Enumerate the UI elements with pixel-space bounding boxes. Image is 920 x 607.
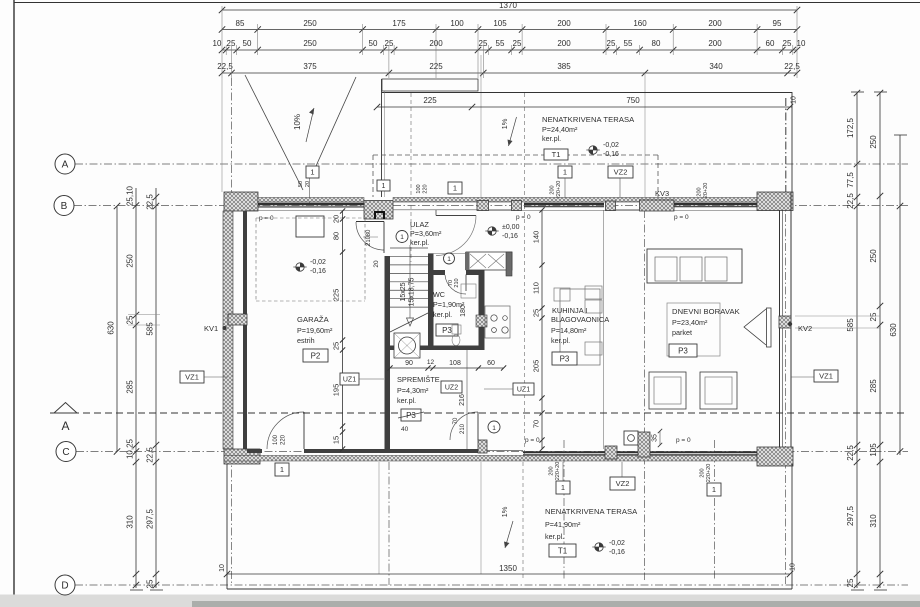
svg-text:110: 110	[532, 282, 541, 294]
svg-text:1: 1	[382, 183, 386, 190]
svg-text:297,5: 297,5	[146, 508, 155, 529]
svg-text:1: 1	[453, 184, 457, 193]
svg-text:1: 1	[492, 425, 496, 432]
svg-text:225: 225	[423, 96, 437, 105]
svg-text:50: 50	[369, 39, 378, 48]
svg-text:UZ2: UZ2	[445, 385, 458, 392]
svg-text:P=41,90m²: P=41,90m²	[545, 520, 581, 529]
svg-text:VZ1: VZ1	[185, 373, 199, 382]
svg-text:285: 285	[126, 380, 135, 394]
svg-text:ULAZ: ULAZ	[410, 220, 429, 229]
svg-text:NENATKRIVENA TERASA: NENATKRIVENA TERASA	[542, 115, 635, 124]
svg-text:12: 12	[427, 359, 435, 366]
svg-text:25,10: 25,10	[126, 185, 135, 206]
svg-text:195: 195	[332, 384, 341, 397]
svg-text:10,25: 10,25	[126, 438, 135, 459]
svg-text:220: 220	[423, 184, 429, 193]
svg-text:parket: parket	[672, 328, 692, 337]
svg-text:200: 200	[708, 19, 722, 28]
svg-text:105: 105	[869, 443, 878, 457]
svg-text:±0,00: ±0,00	[502, 224, 520, 231]
svg-text:340: 340	[709, 62, 723, 71]
svg-text:25: 25	[607, 39, 616, 48]
svg-text:220: 220	[281, 434, 287, 445]
svg-text:UZ1: UZ1	[517, 387, 530, 394]
svg-text:22,5: 22,5	[146, 194, 155, 210]
svg-text:P2: P2	[311, 351, 321, 360]
svg-text:ker.pl.: ker.pl.	[410, 238, 429, 247]
svg-text:25: 25	[846, 578, 855, 587]
svg-text:25: 25	[783, 39, 792, 48]
svg-text:25: 25	[513, 39, 522, 48]
svg-text:385: 385	[557, 62, 571, 71]
svg-text:A: A	[61, 419, 69, 433]
svg-text:p = 0: p = 0	[525, 437, 540, 444]
svg-text:200: 200	[697, 187, 703, 196]
svg-text:70: 70	[532, 420, 541, 428]
svg-text:SPREMIŠTE: SPREMIŠTE	[397, 375, 440, 384]
svg-text:22,5: 22,5	[784, 62, 800, 71]
svg-text:200: 200	[708, 39, 722, 48]
svg-text:297,5: 297,5	[846, 505, 855, 526]
svg-text:T1: T1	[552, 150, 561, 159]
svg-text:1%: 1%	[500, 118, 509, 129]
svg-text:250: 250	[126, 254, 135, 268]
svg-text:50: 50	[243, 39, 252, 48]
svg-text:20: 20	[305, 181, 311, 187]
svg-text:55: 55	[496, 39, 505, 48]
svg-text:250: 250	[303, 19, 317, 28]
svg-text:225: 225	[332, 289, 341, 302]
svg-text:KV3: KV3	[655, 189, 669, 198]
svg-text:1: 1	[280, 465, 284, 474]
svg-text:95: 95	[773, 19, 782, 28]
svg-text:NENATKRIVENA TERASA: NENATKRIVENA TERASA	[545, 507, 638, 516]
svg-text:P3: P3	[442, 326, 452, 335]
svg-text:p = 0: p = 0	[516, 214, 531, 221]
svg-text:ker.pl.: ker.pl.	[551, 336, 570, 345]
svg-text:25: 25	[126, 315, 135, 324]
svg-text:KV2: KV2	[798, 324, 812, 333]
svg-text:25: 25	[332, 342, 341, 350]
svg-text:25: 25	[146, 579, 155, 588]
svg-text:172,5: 172,5	[846, 117, 855, 138]
svg-text:108: 108	[449, 360, 461, 367]
svg-text:22,5: 22,5	[846, 445, 855, 461]
svg-text:B: B	[61, 201, 68, 212]
svg-text:D: D	[61, 581, 68, 592]
svg-text:90: 90	[405, 360, 413, 367]
svg-text:160: 160	[633, 19, 647, 28]
svg-text:KUHINJA I: KUHINJA I	[552, 306, 587, 315]
svg-text:-0,16: -0,16	[502, 233, 518, 240]
svg-text:200: 200	[557, 39, 571, 48]
svg-text:P=3,60m²: P=3,60m²	[410, 229, 442, 238]
svg-text:-0,16: -0,16	[603, 151, 619, 158]
svg-text:200: 200	[549, 466, 555, 475]
svg-text:60: 60	[487, 360, 495, 367]
svg-text:70: 70	[453, 417, 459, 424]
svg-text:BLAGOVAONICA: BLAGOVAONICA	[551, 315, 609, 324]
svg-text:22,5: 22,5	[146, 447, 155, 463]
svg-text:285: 285	[869, 379, 878, 393]
svg-text:WC: WC	[433, 290, 445, 299]
svg-text:VZ2: VZ2	[614, 168, 628, 177]
svg-text:310: 310	[869, 514, 878, 528]
svg-text:20: 20	[332, 215, 341, 223]
svg-text:50: 50	[298, 181, 304, 187]
svg-text:15: 15	[332, 436, 341, 444]
svg-text:750: 750	[626, 96, 640, 105]
svg-text:40: 40	[401, 426, 409, 433]
svg-text:15x25: 15x25	[400, 282, 407, 301]
svg-text:ker.pl.: ker.pl.	[433, 310, 452, 319]
svg-text:60: 60	[766, 39, 775, 48]
svg-text:VZ1: VZ1	[819, 372, 833, 381]
svg-text:-0,02: -0,02	[609, 540, 625, 547]
svg-text:P=19,60m²: P=19,60m²	[297, 326, 333, 335]
svg-text:1%: 1%	[500, 506, 509, 517]
svg-text:10: 10	[797, 39, 806, 48]
svg-text:p = 0: p = 0	[259, 215, 274, 222]
svg-text:estrih: estrih	[297, 336, 315, 345]
svg-text:175: 175	[392, 19, 406, 28]
svg-text:216: 216	[459, 394, 466, 406]
svg-text:P=24,40m²: P=24,40m²	[542, 125, 578, 134]
svg-text:10: 10	[219, 564, 226, 572]
svg-text:UZ1: UZ1	[343, 377, 356, 384]
svg-text:1: 1	[561, 483, 565, 492]
svg-text:VZ2: VZ2	[616, 479, 630, 488]
svg-text:80: 80	[366, 229, 372, 236]
svg-text:210: 210	[460, 423, 466, 434]
svg-text:55: 55	[624, 39, 633, 48]
svg-text:1: 1	[712, 485, 716, 494]
svg-text:1: 1	[400, 234, 404, 241]
svg-text:10%: 10%	[293, 114, 302, 130]
svg-text:-0,02: -0,02	[603, 142, 619, 149]
svg-text:35: 35	[652, 434, 659, 442]
svg-text:105: 105	[493, 19, 507, 28]
svg-text:P3: P3	[560, 354, 570, 363]
svg-text:250: 250	[869, 135, 878, 149]
svg-text:220+20: 220+20	[706, 464, 712, 483]
svg-text:P3: P3	[678, 346, 688, 355]
svg-text:GARAŽA: GARAŽA	[297, 315, 330, 324]
svg-text:KV1: KV1	[204, 324, 218, 333]
svg-text:630: 630	[889, 323, 898, 337]
svg-text:630: 630	[107, 321, 116, 335]
svg-text:P=14,80m²: P=14,80m²	[551, 326, 587, 335]
svg-text:25: 25	[532, 309, 541, 317]
svg-text:1350: 1350	[499, 564, 517, 573]
svg-text:220+20: 220+20	[555, 462, 561, 481]
svg-text:ker.pl.: ker.pl.	[545, 532, 564, 541]
svg-text:T1: T1	[558, 546, 568, 555]
svg-text:77,5: 77,5	[846, 172, 855, 188]
svg-text:85: 85	[236, 19, 245, 28]
svg-text:250: 250	[303, 39, 317, 48]
svg-text:375: 375	[303, 62, 317, 71]
svg-text:80: 80	[652, 39, 661, 48]
svg-text:1: 1	[447, 256, 451, 263]
svg-text:-0,02: -0,02	[310, 259, 326, 266]
svg-text:20: 20	[373, 260, 380, 268]
svg-text:200: 200	[700, 468, 706, 477]
svg-text:15x18,75: 15x18,75	[409, 277, 416, 306]
svg-text:ker.pl.: ker.pl.	[397, 396, 416, 405]
svg-text:1370: 1370	[499, 1, 517, 10]
svg-text:100: 100	[450, 19, 464, 28]
svg-text:-0,16: -0,16	[310, 268, 326, 275]
svg-text:140: 140	[532, 231, 541, 244]
svg-text:585: 585	[846, 318, 855, 332]
svg-text:25: 25	[385, 39, 394, 48]
svg-text:310: 310	[126, 515, 135, 529]
svg-text:22,5: 22,5	[217, 62, 233, 71]
svg-text:205: 205	[532, 360, 541, 373]
svg-text:1: 1	[563, 168, 567, 177]
svg-text:250: 250	[869, 249, 878, 263]
svg-text:100: 100	[273, 434, 279, 445]
svg-text:-0,16: -0,16	[609, 549, 625, 556]
svg-text:C: C	[62, 447, 69, 458]
svg-text:200: 200	[557, 19, 571, 28]
svg-text:100: 100	[416, 184, 422, 193]
svg-text:10: 10	[213, 39, 222, 48]
svg-text:180: 180	[460, 305, 467, 317]
svg-text:1: 1	[310, 168, 314, 177]
svg-text:210: 210	[454, 278, 460, 287]
svg-text:DNEVNI BORAVAK: DNEVNI BORAVAK	[672, 307, 740, 316]
svg-text:p = 0: p = 0	[674, 214, 689, 221]
svg-text:10: 10	[791, 96, 798, 104]
svg-text:220+20: 220+20	[556, 181, 562, 200]
svg-text:10: 10	[790, 563, 797, 571]
svg-text:P=4,30m²: P=4,30m²	[397, 386, 429, 395]
svg-text:P=23,40m²: P=23,40m²	[672, 318, 708, 327]
svg-text:22,5: 22,5	[846, 193, 855, 209]
svg-text:p = 0: p = 0	[676, 437, 691, 444]
svg-text:ker.pl.: ker.pl.	[542, 134, 561, 143]
svg-text:A: A	[62, 160, 69, 171]
svg-text:200: 200	[550, 185, 556, 194]
svg-text:25: 25	[869, 312, 878, 321]
svg-text:80: 80	[332, 232, 341, 240]
svg-text:585: 585	[146, 322, 155, 336]
